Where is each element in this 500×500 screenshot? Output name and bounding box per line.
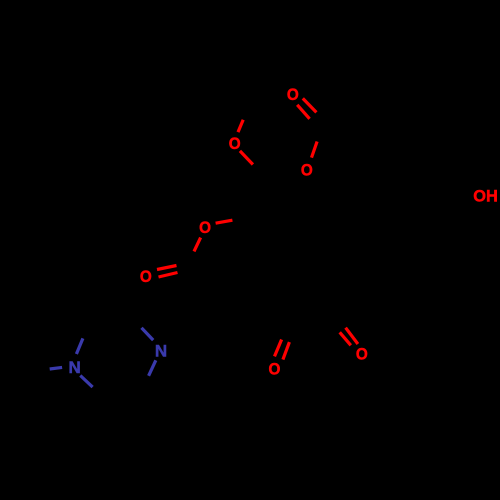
lactone oxygen bond down-left to carbonyl (194, 238, 201, 252)
ester carbonyl double bond C=O line 2 (297, 105, 309, 119)
lactone carbonyl double bond line 2 (159, 273, 178, 278)
svg-text:N: N (69, 358, 81, 377)
amine N2 bond down-left (149, 360, 156, 376)
svg-text:OH: OH (473, 187, 498, 206)
svg-text:N: N (155, 341, 167, 360)
ester carbonyl double bond C=O line 1 (303, 98, 317, 112)
ketone 1 double bond line 2 (283, 342, 290, 360)
svg-text:O: O (229, 134, 241, 153)
amine N1 bond to methyl (left) (50, 367, 62, 369)
lactone oxygen bond right (216, 220, 233, 223)
svg-text:O: O (356, 345, 368, 364)
ketone 1 double bond line 1 (275, 340, 282, 357)
ketone 2 double bond line 1 (346, 328, 358, 344)
svg-text:O: O (140, 267, 152, 286)
svg-text:O: O (269, 360, 281, 379)
ester oxygen bond to carbonyl carbon (312, 142, 318, 158)
svg-text:O: O (287, 85, 299, 104)
lactone carbonyl double bond line 1 (157, 266, 177, 270)
amine N2 bond up-left (142, 328, 154, 340)
ketone 2 double bond line 2 (340, 332, 351, 345)
amine N1 bond up-right (76, 338, 83, 354)
svg-text:O: O (301, 160, 313, 179)
methoxy bond down to chain (240, 151, 253, 165)
methoxy bond up to methyl (238, 120, 243, 132)
svg-text:O: O (199, 218, 211, 237)
amine N1 bond down-right (80, 376, 92, 388)
